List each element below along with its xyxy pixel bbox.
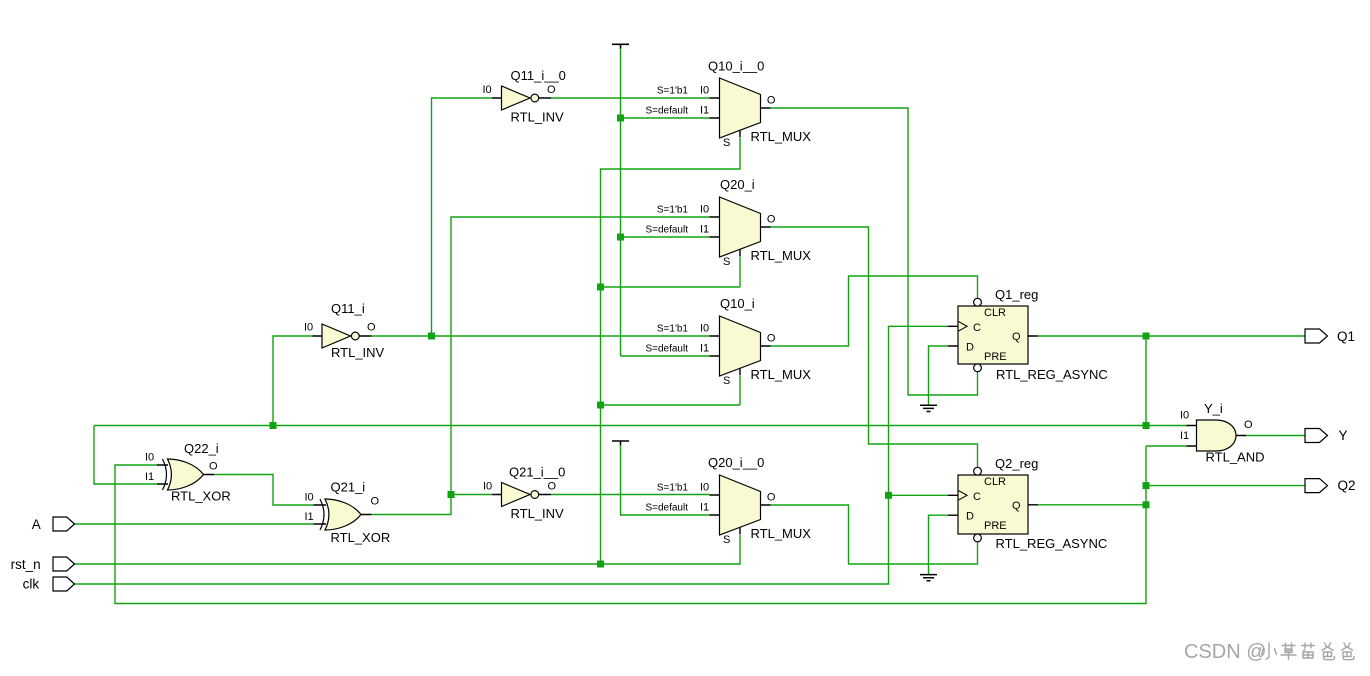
wire net Q21_i output [372, 217, 710, 515]
svg-text:I1: I1 [145, 471, 154, 483]
wire net Q11_i output [372, 98, 710, 336]
svg-text:I0: I0 [700, 85, 709, 97]
junction Q21_i output at Q21_i__0 input [448, 491, 455, 498]
svg-text:S=1'b1: S=1'b1 [657, 324, 689, 335]
output port Q1 [1305, 329, 1355, 344]
svg-text:Q2_reg: Q2_reg [995, 456, 1038, 471]
svg-text:S: S [723, 375, 730, 387]
input port A [32, 517, 75, 532]
svg-text:RTL_MUX: RTL_MUX [751, 129, 812, 144]
svg-text:O: O [767, 492, 776, 504]
junction S net at Q20_i S [597, 284, 604, 291]
svg-text:I0: I0 [483, 480, 492, 492]
svg-text:rst_n: rst_n [11, 557, 41, 572]
wire net Q11_i__0 output [551, 97, 710, 99]
mux M Q20_i__0 [645, 455, 811, 546]
wire net Q2_reg D to ground [929, 515, 949, 574]
svg-text:Q20_i__0: Q20_i__0 [708, 455, 764, 470]
svg-text:I1: I1 [305, 511, 314, 523]
svg-text:Q20_i: Q20_i [720, 177, 755, 192]
svg-text:S=1'b1: S=1'b1 [657, 86, 689, 97]
svg-text:O: O [371, 496, 380, 508]
mux M Q10_i [645, 296, 811, 387]
output port Q2 [1305, 478, 1356, 493]
svg-text:S=default: S=default [645, 106, 688, 117]
wire net A [75, 523, 314, 525]
wire net VCC2 power vertical [621, 445, 710, 515]
input port clk [23, 577, 75, 592]
wire net VCC1 power vertical [621, 48, 710, 356]
input port rst_n [11, 557, 75, 572]
mux M Q10_i__0 [645, 59, 811, 150]
mux M Q20_i [645, 177, 811, 268]
svg-text:D: D [966, 342, 974, 354]
watermark CSDN [1184, 641, 1267, 663]
svg-text:RTL_AND: RTL_AND [1206, 450, 1265, 465]
junction clk at Q2_reg C [885, 492, 892, 499]
wire net Q20_i output to Q2_reg CLR [771, 227, 978, 467]
svg-text:RTL_XOR: RTL_XOR [331, 530, 391, 545]
wire net Y [1246, 435, 1305, 437]
svg-text:I0: I0 [304, 322, 313, 334]
ground symbol below Q1_reg [920, 405, 937, 411]
watermark glyph ba2 [1341, 643, 1354, 660]
svg-text:O: O [548, 480, 557, 492]
junction Q1 net at Q11_i input [270, 422, 277, 429]
svg-text:O: O [209, 461, 218, 473]
svg-text:RTL_REG_ASYNC: RTL_REG_ASYNC [996, 536, 1108, 551]
svg-text:O: O [547, 84, 556, 96]
svg-text:I1: I1 [700, 224, 709, 236]
svg-text:S=default: S=default [645, 344, 688, 355]
svg-text:I0: I0 [700, 204, 709, 216]
watermark glyph mei [1301, 643, 1315, 659]
xor gate Q21_i [305, 480, 391, 546]
svg-text:RTL_INV: RTL_INV [511, 110, 565, 125]
svg-text:Q21_i: Q21_i [331, 480, 366, 495]
svg-text:PRE: PRE [984, 351, 1007, 363]
inverter U Q11_i__0 [483, 68, 566, 125]
svg-text:S=default: S=default [645, 503, 688, 514]
svg-text:S: S [723, 534, 730, 546]
svg-text:O: O [1244, 419, 1253, 431]
svg-text:CLR: CLR [984, 307, 1006, 319]
svg-text:O: O [767, 95, 776, 107]
wire net Q10_i__0 output to Q1_reg PRE [771, 108, 978, 395]
svg-text:A: A [32, 517, 41, 532]
svg-text:I0: I0 [700, 482, 709, 494]
junction Q1 net at Y_i I0 [1143, 422, 1150, 429]
wire net rst_n / S select [75, 138, 741, 564]
inverter U Q21_i__0 [483, 465, 565, 522]
watermark glyph ba1 [1322, 643, 1335, 660]
watermark glyph xiao [1262, 643, 1277, 660]
svg-text:Q: Q [1012, 500, 1021, 512]
wire net Q1_reg D to ground [929, 346, 949, 405]
svg-text:Q10_i: Q10_i [720, 296, 755, 311]
wire net Q1 [94, 336, 1305, 484]
svg-text:I0: I0 [305, 492, 314, 504]
svg-text:CSDN @: CSDN @ [1184, 641, 1267, 663]
svg-text:Q1: Q1 [1337, 329, 1355, 344]
svg-text:S: S [723, 256, 730, 268]
svg-text:Q11_i: Q11_i [331, 301, 365, 316]
svg-text:C: C [973, 491, 981, 503]
junction VCC1 at Q20_i I1 [617, 234, 624, 241]
svg-text:I0: I0 [1180, 410, 1189, 422]
inverter U Q11_i [304, 301, 385, 360]
register Q2_reg RTL_REG_ASYNC [948, 456, 1107, 551]
svg-text:RTL_MUX: RTL_MUX [751, 248, 812, 263]
power symbol VCC2 [612, 441, 629, 445]
junction Q1 net at Q1_reg Q [1143, 333, 1150, 340]
svg-text:D: D [966, 511, 974, 523]
output port Y [1305, 428, 1348, 443]
junction Q2 net at Q2 port [1143, 482, 1150, 489]
wire net Q10_i output to Q1_reg CLR [771, 276, 978, 346]
wire net clk [75, 326, 949, 584]
ground symbol below Q2_reg [920, 575, 937, 581]
svg-text:PRE: PRE [984, 520, 1007, 532]
svg-text:I0: I0 [145, 452, 154, 464]
junction S net at Q10_i S [597, 402, 604, 409]
svg-text:clk: clk [23, 577, 40, 592]
wire net Q2 [115, 446, 1305, 604]
junction VCC1 at Q10_i__0 I1 [617, 115, 624, 122]
svg-text:O: O [767, 214, 776, 226]
svg-text:I1: I1 [700, 343, 709, 355]
svg-text:Q10_i__0: Q10_i__0 [708, 59, 764, 74]
svg-text:Q: Q [1012, 331, 1021, 343]
svg-text:I0: I0 [483, 84, 492, 96]
wire net Q22_i output [214, 475, 314, 506]
power symbol VCC1 [612, 44, 629, 48]
wire net Q20_i__0 output to Q2_reg PRE [771, 505, 978, 564]
register Q1_reg RTL_REG_ASYNC [948, 287, 1108, 382]
svg-text:C: C [973, 322, 981, 334]
svg-text:S=1'b1: S=1'b1 [657, 483, 689, 494]
svg-text:S=1'b1: S=1'b1 [657, 205, 689, 216]
svg-text:Q1_reg: Q1_reg [995, 287, 1038, 302]
svg-text:I1: I1 [1180, 430, 1189, 442]
junction Q11_i output branch [428, 333, 435, 340]
svg-text:Y_i: Y_i [1204, 401, 1223, 416]
svg-text:O: O [767, 333, 776, 345]
xor gate Q22_i [145, 441, 231, 504]
svg-text:Q11_i__0: Q11_i__0 [511, 68, 566, 83]
svg-text:RTL_XOR: RTL_XOR [171, 489, 231, 504]
svg-text:Q2: Q2 [1338, 478, 1356, 493]
svg-text:Q22_i: Q22_i [184, 441, 219, 456]
svg-text:RTL_MUX: RTL_MUX [751, 367, 812, 382]
svg-text:I1: I1 [700, 105, 709, 117]
junction Q2 net at Q2_reg Q [1143, 501, 1150, 508]
svg-text:I0: I0 [700, 323, 709, 335]
wire net Q21_i__0 output [551, 494, 710, 496]
watermark glyph cao [1281, 643, 1297, 661]
svg-text:RTL_INV: RTL_INV [511, 506, 565, 521]
svg-text:S=default: S=default [645, 225, 688, 236]
svg-text:O: O [367, 322, 376, 334]
junction S net at rst_n [597, 561, 604, 568]
and gate Y_i RTL_AND [1180, 401, 1265, 465]
svg-text:RTL_INV: RTL_INV [331, 345, 385, 360]
svg-text:RTL_MUX: RTL_MUX [751, 526, 812, 541]
svg-text:Q21_i__0: Q21_i__0 [509, 465, 565, 480]
svg-text:S: S [723, 137, 730, 149]
svg-text:CLR: CLR [984, 476, 1006, 488]
svg-text:I1: I1 [700, 502, 709, 514]
svg-text:Y: Y [1339, 428, 1348, 443]
svg-text:RTL_REG_ASYNC: RTL_REG_ASYNC [996, 367, 1108, 382]
